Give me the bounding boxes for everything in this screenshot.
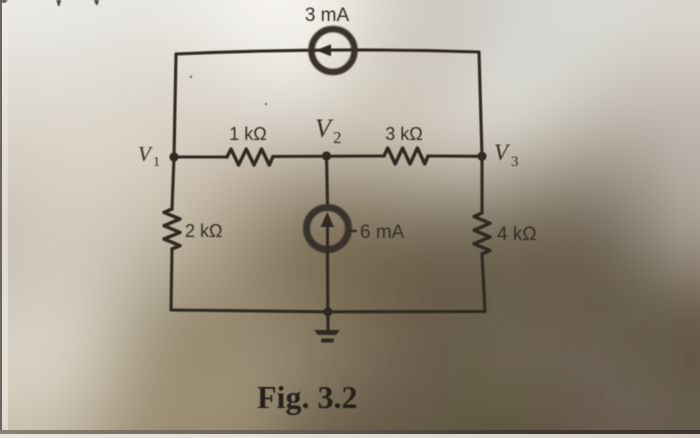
wire left vertical: [171, 54, 176, 310]
svg-text:V: V: [494, 140, 511, 165]
wire right vertical: [479, 52, 485, 312]
node V3 dot: [477, 152, 486, 161]
arrow 6mA: [321, 212, 335, 227]
speck 2: [265, 103, 267, 105]
svg-text:6 mA: 6 mA: [360, 222, 405, 243]
top edge marks: [57, 0, 62, 6]
speck 1: [190, 76, 192, 78]
resistor 2k zigzag: [164, 209, 180, 249]
tick beside 6mA: [349, 230, 356, 232]
resistor 1k zigzag: [227, 149, 273, 165]
resistor 3k zigzag: [384, 148, 428, 164]
svg-text:2 kΩ: 2 kΩ: [185, 221, 222, 241]
svg-text:Fig. 3.2: Fig. 3.2: [257, 379, 357, 415]
svg-text:V: V: [138, 142, 153, 166]
resistor 4k zigzag: [474, 213, 490, 254]
svg-text:V: V: [315, 114, 334, 143]
svg-text:3 mA: 3 mA: [305, 5, 350, 26]
junction dot bottom: [323, 307, 332, 316]
node V2 dot: [322, 151, 331, 160]
wire bottom: [171, 310, 485, 312]
ground bar1: [314, 330, 340, 335]
svg-text:1: 1: [153, 155, 160, 170]
svg-text:3: 3: [511, 154, 519, 170]
wire middle horizontal: [174, 156, 482, 157]
svg-text:4 kΩ: 4 kΩ: [497, 224, 537, 245]
wire center vertical: [327, 156, 329, 330]
svg-text:1 kΩ: 1 kΩ: [229, 124, 266, 144]
svg-text:2: 2: [333, 128, 342, 147]
arrow 3mA: [316, 44, 331, 56]
current source 6mA circle: [307, 208, 349, 250]
node V1 dot: [169, 152, 178, 161]
ground bar2: [321, 339, 334, 343]
current source 3mA circle: [312, 29, 355, 72]
wire top: [176, 50, 479, 54]
svg-text:3 kΩ: 3 kΩ: [385, 124, 422, 144]
